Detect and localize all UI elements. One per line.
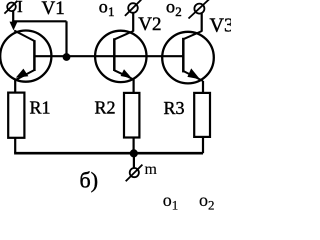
wire: R1 bottom to ground rail	[14, 138, 16, 153]
wire: top bus drop to base rail	[65, 21, 67, 56]
terminal 1 (input, top-left)	[4, 1, 17, 14]
wire: terminal 1 down to top bus	[12, 11, 14, 22]
svg-text:R3: R3	[164, 98, 185, 118]
svg-text:I: I	[17, 0, 23, 16]
svg-text:1: 1	[172, 198, 179, 213]
svg-text:V1: V1	[42, 0, 65, 19]
label o1 (bottom right)	[163, 190, 179, 213]
wire: terminal o2 down to V3 collector	[201, 13, 203, 31]
base rail (common bases V1-V2-V3)	[34, 55, 183, 57]
svg-text:o: o	[199, 190, 208, 210]
current direction arrow (into V1 collector)	[10, 22, 18, 31]
resistor R1	[8, 93, 24, 138]
label o2 (bottom right)	[199, 190, 215, 213]
svg-text:1: 1	[108, 4, 115, 19]
resistor R2	[124, 93, 139, 138]
svg-text:o: o	[166, 0, 175, 17]
svg-text:V2: V2	[138, 14, 161, 35]
terminal o1 (above V2)	[125, 0, 141, 16]
svg-text:R2: R2	[95, 97, 116, 117]
wire: terminal o1 down to V2 collector	[132, 13, 134, 32]
resistor R3	[194, 93, 210, 137]
wire: V1 emitter down to R1	[14, 80, 16, 93]
terminal m	[126, 165, 143, 182]
wire: R3 bottom to ground rail	[202, 137, 204, 153]
svg-text:2: 2	[208, 198, 215, 213]
svg-text:o: o	[163, 190, 172, 210]
wire: V3 emitter down to R3	[202, 81, 204, 93]
bottom common rail	[14, 152, 203, 155]
wire: top bus horizontal	[12, 20, 66, 22]
svg-text:m: m	[145, 161, 158, 178]
label o1 (top)	[99, 0, 115, 19]
transistor V3	[162, 31, 214, 83]
terminal o2 (above V3)	[189, 0, 210, 19]
junction dot m on bottom rail	[130, 149, 138, 157]
junction dot (base rail / input)	[63, 53, 71, 61]
svg-text:2: 2	[175, 4, 182, 19]
svg-text:V3: V3	[210, 15, 232, 37]
wire: R2 bottom to ground rail	[133, 138, 135, 154]
label o2 (top)	[166, 0, 182, 19]
svg-text:o: o	[99, 0, 108, 17]
svg-text:R1: R1	[30, 97, 51, 117]
transistor V1	[0, 30, 51, 81]
svg-text:б): б)	[80, 168, 99, 193]
transistor V2	[95, 31, 146, 82]
wire: rail down to terminal m	[133, 153, 135, 168]
wire: V2 emitter down to R2	[133, 80, 135, 94]
